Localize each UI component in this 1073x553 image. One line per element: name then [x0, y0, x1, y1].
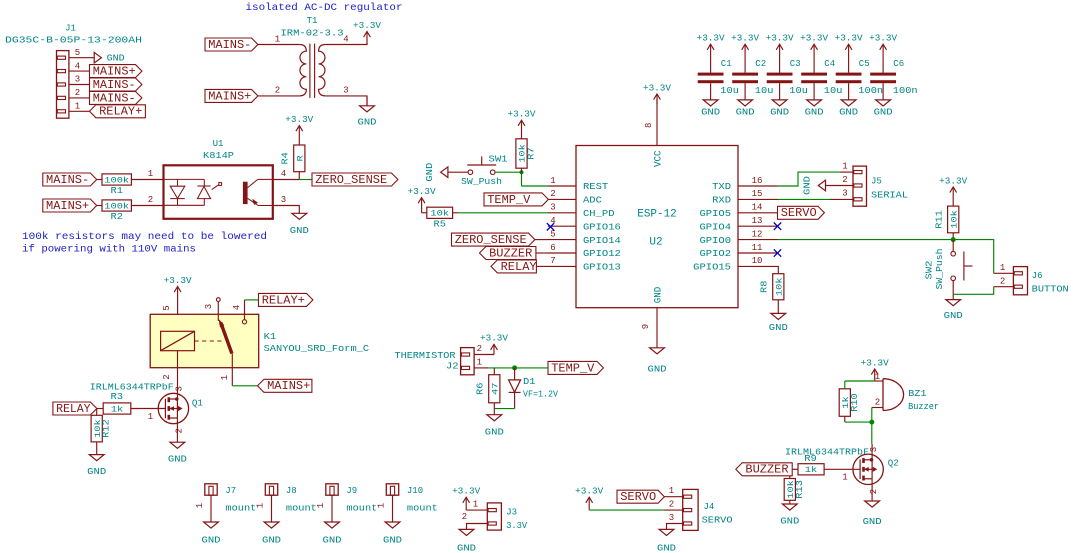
wire BUZZER to GPIO12 [536, 252, 548, 254]
svg-text:10u: 10u [720, 86, 739, 96]
wire J9 pin 1 [331, 495, 333, 522]
wire J1 pin 4 [69, 70, 90, 72]
wire K1 pin 4 to RELAY+ [245, 299, 259, 301]
svg-text:if powering with 110V mains: if powering with 110V mains [22, 244, 196, 256]
relay K1 pin 3 [217, 301, 219, 321]
svg-text:10u: 10u [824, 86, 843, 96]
svg-text:GND: GND [653, 287, 665, 304]
wire +3.3V to R10 [845, 380, 875, 382]
svg-text:GND: GND [769, 323, 788, 333]
svg-text:+3.3V: +3.3V [861, 358, 890, 368]
wire U1 pin 3 [273, 206, 300, 214]
svg-text:5: 5 [550, 229, 555, 239]
wire SW2 bottom [952, 281, 954, 295]
junction GPIO0-R11-SW2 [951, 237, 956, 242]
svg-text:DG35C-B-05P-13-200AH: DG35C-B-05P-13-200AH [5, 36, 142, 46]
resistor R2 100k [102, 200, 131, 211]
svg-text:RELAY+: RELAY+ [99, 105, 142, 119]
resistor R9 1k [798, 464, 824, 475]
svg-text:GND: GND [770, 107, 789, 117]
junction R10-BZ1-Q2 [869, 420, 874, 425]
svg-text:J2: J2 [446, 362, 459, 372]
global label SERVO at GPIO5 [778, 206, 825, 219]
svg-text:J1: J1 [65, 24, 76, 34]
svg-text:1: 1 [275, 35, 280, 45]
svg-text:2: 2 [1000, 276, 1005, 286]
wire J2 pin 2 [474, 354, 494, 356]
wire R1 to U1 pin 1 [131, 179, 163, 181]
global label RELAY at Q1 [53, 402, 97, 415]
svg-text:100n: 100n [858, 86, 883, 96]
svg-text:GPIO5: GPIO5 [700, 208, 732, 219]
svg-text:10k: 10k [430, 209, 449, 219]
svg-text:C1: C1 [721, 59, 732, 69]
global label MAINS+ at U1 input [43, 199, 97, 212]
resistor R6 47 [489, 375, 500, 403]
push button SW1 [468, 170, 473, 175]
wire Q2 source [871, 479, 873, 501]
svg-text:GND: GND [87, 467, 106, 477]
wire Q1 source [176, 418, 178, 442]
svg-text:100k resistors may need to be: 100k resistors may need to be lowered [22, 231, 267, 243]
wire U2 left pin 6 [548, 252, 576, 254]
no-connect GPIO2 [774, 249, 781, 256]
wire TXD to J5 pin 1 [778, 172, 841, 186]
connector J7 body [205, 484, 217, 495]
svg-text:J3: J3 [506, 507, 517, 517]
global label SERVO at J4 [617, 490, 664, 503]
global label BUZZER at Q2 [736, 463, 792, 476]
svg-text:2: 2 [869, 489, 879, 494]
wire U2 right pin 16 [738, 185, 778, 187]
svg-text:GPIO4: GPIO4 [700, 221, 732, 232]
wire D1 to GND net [494, 408, 514, 410]
svg-text:SERIAL: SERIAL [871, 190, 908, 200]
svg-text:GND: GND [107, 54, 125, 64]
svg-text:3: 3 [869, 447, 879, 452]
wire U2 left pin 4 [548, 225, 576, 227]
resistor R8 10k [773, 274, 784, 300]
wire ZERO_SENSE to GPIO14 [535, 239, 548, 241]
svg-text:+3.3V: +3.3V [800, 34, 829, 44]
global label MAINS+ at J1 pin 4 [90, 65, 142, 78]
no-connect GPIO4 [774, 223, 781, 230]
resistor R7 10k [516, 139, 527, 168]
svg-text:GND: GND [202, 536, 221, 546]
wire RELAY to GPIO13 [536, 265, 548, 267]
svg-text:GND: GND [805, 107, 824, 117]
svg-text:Buzzer: Buzzer [908, 402, 939, 412]
svg-text:14: 14 [752, 203, 763, 213]
wire K1 pin 2 to Q1 drain [177, 351, 179, 399]
svg-text:J7: J7 [225, 486, 236, 496]
svg-text:R10: R10 [850, 393, 860, 412]
ground at J5 pin 2 [826, 185, 854, 187]
svg-text:3: 3 [281, 195, 286, 205]
ground at J8 [264, 522, 279, 528]
svg-text:J8: J8 [286, 486, 297, 496]
svg-text:100n: 100n [893, 86, 918, 96]
global label ZERO_SENSE at U1 [312, 173, 398, 186]
wire R12 bottom [96, 442, 98, 455]
relay K1 pin 4 [244, 300, 246, 320]
module U2 ESP-12 body [576, 146, 738, 308]
svg-text:R5: R5 [434, 219, 446, 229]
svg-text:5: 5 [162, 305, 172, 310]
wire node ZERO_SENSE [299, 179, 312, 181]
wire U2 left pin 2 [548, 198, 576, 200]
svg-text:GPIO12: GPIO12 [583, 248, 621, 259]
svg-text:C2: C2 [755, 59, 766, 69]
junction J2-R6-D1 [512, 365, 517, 370]
svg-text:RXD: RXD [712, 195, 731, 206]
svg-text:3: 3 [75, 75, 80, 85]
transformer T1 primary winding [300, 45, 307, 96]
connector J10 body [386, 484, 398, 495]
svg-text:1: 1 [256, 503, 266, 508]
wire J5 pin 3 stub [830, 198, 853, 200]
svg-text:SW2: SW2 [925, 261, 935, 280]
capacitor C4 [801, 73, 827, 76]
wire BZ1 pin 1 [875, 380, 883, 382]
svg-text:3.3V: 3.3V [506, 521, 528, 531]
svg-text:R1: R1 [111, 186, 123, 196]
svg-text:2: 2 [842, 175, 847, 185]
svg-text:TEMP_V: TEMP_V [487, 193, 531, 207]
svg-text:GND: GND [803, 176, 813, 195]
svg-text:GND: GND [457, 543, 476, 553]
svg-text:1: 1 [377, 503, 387, 508]
svg-text:100k: 100k [104, 201, 129, 211]
ground at SW1 [448, 171, 468, 173]
wire GPIO15 to R8 [777, 266, 780, 273]
wire J1 pin 2 [69, 97, 90, 99]
svg-text:D1: D1 [523, 377, 536, 387]
svg-text:BUZZER: BUZZER [745, 463, 788, 477]
ground at J10 [385, 522, 400, 528]
svg-text:R13: R13 [795, 480, 805, 499]
svg-text:100k: 100k [104, 175, 129, 185]
svg-text:1: 1 [195, 503, 205, 508]
global label BUZZER at GPIO12 [480, 247, 536, 260]
svg-text:SERVO: SERVO [781, 206, 817, 220]
wire J6 pin 1 stub [994, 272, 1014, 274]
wire R3 to Q1 gate [131, 408, 166, 410]
svg-text:+3.3V: +3.3V [766, 34, 795, 44]
svg-text:3: 3 [204, 304, 214, 309]
svg-text:1: 1 [669, 486, 674, 496]
ground at C6 [882, 83, 884, 100]
svg-text:GPIO15: GPIO15 [693, 262, 731, 273]
wire J3 pin 1 [466, 509, 487, 511]
svg-text:2: 2 [669, 500, 674, 510]
wire to REST pin [522, 185, 549, 187]
svg-text:J5: J5 [871, 177, 882, 187]
svg-text:BUTTON: BUTTON [1032, 285, 1069, 295]
svg-text:GPIO2: GPIO2 [700, 248, 732, 259]
svg-text:1: 1 [148, 169, 153, 179]
svg-text:GND: GND [323, 536, 342, 546]
wire Q2 drain [871, 444, 873, 460]
ground at Q1 [170, 442, 185, 448]
ground at U1 pin 3 [292, 213, 307, 219]
svg-text:R7: R7 [527, 147, 537, 159]
svg-text:13: 13 [752, 216, 763, 226]
svg-text:GPIO13: GPIO13 [583, 262, 621, 273]
svg-text:GND: GND [780, 517, 799, 527]
svg-text:VCC: VCC [653, 151, 665, 168]
svg-text:GND: GND [944, 311, 963, 321]
svg-text:GPIO16: GPIO16 [583, 221, 621, 232]
svg-text:REST: REST [583, 181, 609, 192]
svg-text:1: 1 [220, 375, 230, 380]
svg-text:Q2: Q2 [888, 457, 899, 468]
svg-text:1: 1 [75, 102, 80, 112]
ground at J7 [204, 522, 219, 528]
svg-text:1: 1 [842, 473, 847, 483]
svg-text:3: 3 [550, 203, 555, 213]
wire RELAY to R3 and R12 [97, 408, 104, 410]
wire R7 junction down [521, 172, 523, 186]
U1 internal LED pair [164, 178, 205, 180]
svg-text:3: 3 [669, 513, 674, 523]
wire MAINS- to R1 [97, 179, 102, 181]
svg-text:GND: GND [383, 536, 402, 546]
svg-text:+3.3V: +3.3V [939, 176, 968, 186]
wire SW1 to R7 [495, 171, 522, 173]
wire U2 right pin 11 [738, 252, 778, 254]
global label TEMP_V at J2 [548, 361, 603, 374]
wire J5 pin 1 stub [840, 171, 853, 173]
svg-text:15: 15 [752, 189, 763, 199]
wire J10 pin 1 [392, 495, 394, 522]
transistor Q2 [853, 454, 883, 484]
connector J8 body [265, 484, 277, 495]
connector J5 body [853, 166, 867, 206]
connector J6 body [1013, 267, 1027, 295]
global label RELAY+ at K1 [259, 293, 313, 306]
resistor R1 100k [102, 174, 131, 185]
ground at J3 [459, 529, 474, 535]
relay K1 dashed link [195, 340, 223, 342]
svg-text:10k: 10k [775, 277, 785, 296]
ground at U2 pin 9 [650, 348, 665, 354]
svg-text:GND: GND [485, 428, 504, 438]
svg-text:CH_PD: CH_PD [583, 208, 615, 219]
wire T1 pin 1 [258, 44, 300, 46]
ground at R8 [771, 313, 786, 319]
svg-text:10k: 10k [949, 210, 959, 229]
wire J1 pin 1 [69, 110, 90, 112]
svg-text:+3.3V: +3.3V [452, 487, 481, 497]
connector J4 body [683, 489, 698, 530]
svg-text:1: 1 [148, 412, 153, 422]
svg-text:IRLML6344TRPbF: IRLML6344TRPbF [785, 447, 869, 457]
svg-text:2: 2 [148, 195, 153, 205]
ground at R13 [782, 504, 797, 510]
wire to R6 top [493, 368, 495, 375]
ground at Q2 [865, 501, 880, 507]
svg-text:1: 1 [875, 372, 880, 382]
resistor R10 1k [839, 389, 850, 417]
svg-text:1k: 1k [111, 404, 123, 414]
global label RELAY+ at J1 pin 1 [90, 105, 146, 118]
svg-text:MAINS-: MAINS- [208, 38, 251, 52]
wire U2 GND pin [656, 308, 658, 348]
wire K1 pin 1 to MAINS+ [232, 385, 257, 387]
svg-text:MAINS+: MAINS+ [267, 379, 310, 393]
svg-text:mount: mount [407, 504, 438, 514]
svg-text:C5: C5 [859, 59, 870, 69]
resistor R13 100k [784, 479, 795, 501]
svg-text:J9: J9 [346, 486, 357, 496]
svg-text:1: 1 [1000, 263, 1005, 273]
svg-text:ZERO_SENSE: ZERO_SENSE [455, 233, 527, 247]
svg-text:GND: GND [701, 107, 720, 117]
wire U2 right pin 15 [738, 198, 778, 200]
svg-text:mount: mount [346, 504, 377, 514]
svg-text:10u: 10u [755, 86, 774, 96]
wire R5 to CH_PD [458, 212, 548, 214]
wire J6 pin 2 stub [994, 286, 1014, 288]
svg-text:1: 1 [550, 176, 555, 186]
global label TEMP_V at U2 ADC [484, 193, 548, 206]
wire RXD to J5 pin 3 [778, 198, 831, 200]
svg-text:R12: R12 [102, 419, 112, 438]
svg-text:SW_Push: SW_Push [935, 249, 945, 290]
svg-text:ZERO_SENSE: ZERO_SENSE [315, 173, 387, 187]
svg-text:+3.3V: +3.3V [508, 110, 537, 120]
resistor R4 [294, 145, 305, 172]
svg-text:GPIO0: GPIO0 [700, 235, 732, 246]
svg-text:+3.3V: +3.3V [643, 83, 672, 93]
wire J4 pin 2 stub [664, 509, 683, 511]
svg-text:GND: GND [262, 536, 281, 546]
svg-text:IRM-02-3.3: IRM-02-3.3 [281, 29, 344, 39]
svg-text:3: 3 [174, 386, 184, 391]
ground at R6-D1 [493, 409, 495, 415]
global label MAINS- at U1 input [43, 173, 97, 186]
wire BZ1 pin 2 [872, 407, 883, 409]
U1 emission arrow [212, 185, 219, 190]
svg-text:VF=1.2V: VF=1.2V [523, 390, 559, 400]
wire R4 to ZERO_SENSE [298, 172, 300, 180]
svg-text:4: 4 [232, 305, 242, 310]
transformer T1 secondary winding [319, 45, 326, 96]
svg-text:2: 2 [462, 512, 467, 522]
wire SW2 to GND and J6 pin 2 [953, 287, 994, 295]
capacitor C3 [767, 73, 793, 76]
svg-text:1: 1 [316, 503, 326, 508]
svg-text:8: 8 [644, 123, 654, 128]
connector J9 body [326, 484, 338, 495]
svg-text:+3.3V: +3.3V [731, 34, 760, 44]
wire U2 left pin 7 [548, 265, 576, 267]
relay K1 coil [161, 331, 195, 350]
svg-text:MAINS+: MAINS+ [46, 199, 89, 213]
svg-text:TEMP_V: TEMP_V [551, 361, 595, 375]
svg-text:6: 6 [550, 243, 555, 253]
optocoupler U1 body [164, 165, 273, 219]
wire U2 right pin 13 [738, 225, 778, 227]
transformer T1 core [309, 44, 311, 98]
svg-text:2: 2 [875, 398, 880, 408]
svg-text:+3.3V: +3.3V [697, 34, 726, 44]
svg-text:+3.3V: +3.3V [285, 115, 314, 125]
svg-text:BZ1: BZ1 [908, 389, 927, 399]
svg-text:C3: C3 [790, 59, 801, 69]
svg-text:C4: C4 [824, 59, 835, 69]
wire J1 pin 5 [69, 57, 90, 59]
wire R9 to Q2 gate [824, 468, 860, 470]
ground at SW2 [952, 294, 954, 299]
capacitor C2 [732, 73, 758, 76]
svg-text:RELAY: RELAY [56, 402, 91, 416]
global label MAINS+ at K1 [258, 379, 312, 392]
svg-text:2: 2 [275, 86, 280, 96]
wire U2 left pin 5 [548, 239, 576, 241]
wire BUZZER to R9 [792, 468, 798, 470]
wire J2 pin 1 to TEMP_V [489, 367, 548, 369]
svg-text:2: 2 [477, 344, 482, 354]
svg-text:2: 2 [75, 88, 80, 98]
ground at C5 [848, 83, 850, 100]
svg-text:47: 47 [491, 383, 501, 395]
svg-text:GND: GND [863, 517, 882, 527]
svg-text:1k: 1k [805, 465, 817, 475]
wire R10 bottom [844, 416, 846, 422]
svg-text:ADC: ADC [583, 195, 602, 206]
svg-text:R3: R3 [111, 392, 124, 402]
svg-text:R6: R6 [476, 383, 486, 395]
svg-text:4: 4 [281, 169, 286, 179]
svg-text:GND: GND [874, 107, 893, 117]
wire R2 to U1 pin 2 [131, 205, 163, 207]
wire J8 pin 1 [271, 495, 273, 522]
wire J1 pin 3 [69, 84, 90, 86]
relay K1 switch arm [221, 323, 232, 354]
capacitor C1 [698, 73, 724, 76]
svg-text:GND: GND [657, 543, 676, 553]
svg-text:BUZZER: BUZZER [489, 246, 532, 260]
svg-text:RELAY: RELAY [501, 260, 537, 274]
wire BUZZER to R13 [789, 476, 791, 479]
global label MAINS+ at T1 pin 2 [205, 89, 258, 102]
wire T1 pin 3 [325, 96, 367, 106]
transistor Q1 [158, 393, 188, 423]
svg-text:isolated AC-DC regulator: isolated AC-DC regulator [246, 2, 403, 14]
svg-text:MAINS+: MAINS+ [93, 65, 136, 79]
svg-text:2: 2 [162, 374, 172, 379]
svg-text:mount: mount [225, 504, 256, 514]
svg-text:J6: J6 [1032, 271, 1043, 281]
svg-text:MAINS+: MAINS+ [208, 89, 251, 103]
ground at C2 [744, 83, 746, 100]
svg-text:MAINS-: MAINS- [93, 78, 136, 92]
svg-text:GND: GND [290, 226, 309, 236]
ground at C3 [779, 83, 781, 100]
svg-text:5: 5 [75, 48, 80, 58]
resistor R12 100k [91, 415, 102, 442]
wire BZ1 pin 2 down [871, 408, 873, 445]
wire R10 top [844, 381, 846, 389]
wire U2 left pin 3 [548, 212, 576, 214]
ground at C1 [710, 83, 712, 100]
wire U2 right pin 12 [738, 239, 778, 241]
svg-text:+3.3V: +3.3V [575, 487, 604, 497]
ground at C4 [813, 83, 815, 100]
wire R10 to junction [845, 421, 872, 423]
